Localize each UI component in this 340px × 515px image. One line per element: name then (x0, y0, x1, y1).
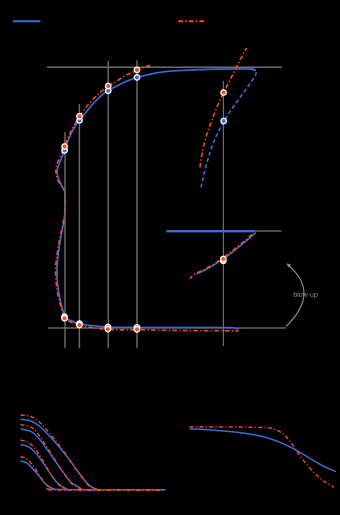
marker pair t2 top (76, 117, 83, 124)
mid inset thick blue line (166, 230, 254, 232)
subplot curve pair 1 orange (21, 415, 99, 490)
marker pair t4 top (134, 74, 141, 81)
marker pair t3 top (105, 87, 112, 94)
top inset orange dash-dot blow-up curve (200, 48, 247, 168)
top asymptote gray line (47, 66, 282, 68)
vertical gridline t2 (78, 104, 80, 348)
marker pair t3 bottom (105, 324, 112, 331)
bottom-left subplot (21, 415, 166, 490)
error curve orange dash-dot (190, 427, 335, 487)
subplot curve pair 2 orange (21, 425, 83, 490)
subplot curve pair 4 blue (21, 461, 55, 490)
mid inset asymptote gray line (253, 230, 282, 232)
marker pair t1 bottom (61, 313, 68, 320)
vertical gridline blow-up time (222, 81, 224, 346)
vertical gridline t4 (136, 60, 138, 348)
subplot curve pair 2 blue (21, 429, 83, 489)
top inset blue dashed blow-up curve (201, 69, 256, 187)
error curve blue (190, 429, 337, 472)
markers: top curve (61, 67, 140, 154)
blow-up annotation arc arrow (286, 265, 304, 327)
arrowhead (286, 263, 291, 267)
marker mid inset blue (220, 257, 227, 264)
legend blue solid line (13, 20, 41, 22)
markers: insets (220, 89, 227, 264)
marker pair t4 bottom (134, 324, 141, 331)
main numerical solution orange dash-dot curve (56, 65, 239, 331)
subplot curve pair 3 blue (21, 444, 68, 489)
subplot curve pair 3 orange (21, 440, 68, 490)
marker mid inset orange (220, 256, 227, 263)
svg-text:blow-up: blow-up (293, 292, 318, 299)
main exact solution blue curve (57, 69, 256, 329)
marker top inset blue (220, 118, 227, 125)
bottom-right subplot (190, 427, 337, 487)
mid inset orange dash-dot diagonal (190, 234, 253, 278)
vertical gridline t3 (107, 61, 109, 348)
subplot curve pair 4 orange (21, 457, 55, 490)
legend orange dash-dot line (179, 20, 206, 22)
marker pair t2 bottom (76, 320, 83, 327)
mid inset blue diagonal (197, 233, 256, 274)
baseline blue (46, 488, 166, 491)
markers: bottom curve (61, 313, 140, 332)
baseline orange dash-dot (48, 489, 166, 492)
bottom asymptote gray line (48, 327, 286, 329)
vertical gridline t1 (64, 132, 66, 348)
subplot curve pair 1 blue (21, 419, 99, 489)
marker pair t1 top (61, 147, 68, 154)
marker top inset orange (220, 89, 227, 96)
